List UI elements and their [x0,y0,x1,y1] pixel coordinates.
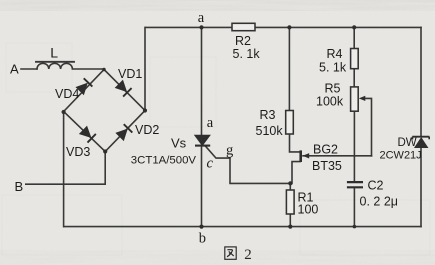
svg-text:DW: DW [398,137,417,149]
svg-text:R4: R4 [327,47,343,61]
diode VD1 [115,80,132,97]
svg-text:2: 2 [244,247,252,263]
svg-text:VD4: VD4 [55,87,79,101]
node R1 bottom junction [288,225,292,229]
node b junction [199,225,203,229]
node bridge bottom vertex [103,149,107,153]
node bridge left vertex [62,110,66,114]
caption 图 2 [225,247,236,259]
node a junction [199,25,203,29]
svg-text:VD2: VD2 [135,123,159,137]
resistor R5 [351,87,359,111]
wire bridge edge top-left [64,70,104,112]
svg-text:3CT1A/500V: 3CT1A/500V [131,155,197,167]
svg-text:VD1: VD1 [118,67,142,81]
wire left vertex drop [63,112,65,227]
wire UJT emitter [303,155,372,157]
wire R4 branch top [353,27,355,48]
wire B lead [26,183,105,185]
svg-text:L: L [50,45,58,61]
wire R5 to C2 [353,111,355,181]
wire bridge edge bottom-right [105,111,145,152]
node dots [62,25,357,228]
svg-text:100k: 100k [316,95,344,109]
wire C2 bottom lead [353,188,355,227]
svg-text:R2: R2 [235,34,251,48]
wire L to bridge top [74,68,104,70]
svg-text:g: g [226,143,233,159]
node C2 bottom junction [353,225,357,229]
wire UJT b1 [292,162,300,184]
svg-text:a: a [198,10,205,26]
svg-text:100: 100 [298,203,319,217]
inductor L [36,62,74,69]
svg-text:510k: 510k [256,124,284,138]
node bridge top vertex [102,68,105,71]
wire A lead [21,68,37,70]
svg-text:BT35: BT35 [312,159,342,173]
svg-text:b: b [199,231,206,247]
wire R1 bottom lead [289,214,291,227]
wire right vertex up [144,27,146,110]
diode VD3 [79,126,96,143]
wire thyristor cathode down [201,145,203,226]
wire R3 to UJT b2 [290,134,300,152]
thyristor Vs [195,135,210,145]
node R4 top junction [352,25,356,29]
wire R3 branch top [288,27,290,110]
capacitor C2 [347,182,363,187]
R5 tap arrow [359,96,366,101]
svg-text:C2: C2 [368,179,384,193]
node bridge right vertex [143,108,147,112]
wire gate path [206,146,291,183]
diode VD2 [116,124,133,141]
resistor R3 [286,111,294,135]
wire R4 to R5 [353,69,355,87]
svg-text:R3: R3 [260,108,276,122]
resistor R4 [351,49,359,69]
wire bridge edge top-right [104,70,145,111]
resistor R1 [286,190,294,214]
transistor BG2 bar [299,150,302,162]
svg-text:0. 2 2μ: 0. 2 2μ [360,195,398,209]
wire bottom rail [64,226,421,228]
svg-text:Vs: Vs [171,136,187,151]
node R3 top junction [287,25,291,29]
wire bottom vertex down [104,152,106,185]
wire R1 top lead [289,183,291,190]
svg-text:A: A [10,62,19,77]
zener diode DW [412,137,429,148]
svg-text:5. 1k: 5. 1k [319,61,347,75]
wire right branch upper [420,27,422,136]
node gate/R1 junction [288,181,292,185]
diode VD4 [76,78,93,95]
resistor R2 [232,23,255,30]
transistor BG2 emitter arrow [303,153,310,158]
wire R5 tap hook [364,98,372,155]
wire right branch lower [420,148,422,227]
wire top rail [146,26,421,28]
wire bridge edge bottom-left [64,112,106,152]
svg-text:R5: R5 [325,82,341,96]
svg-text:5. 1k: 5. 1k [233,47,261,61]
svg-text:B: B [15,179,24,194]
svg-text:BG2: BG2 [313,143,338,157]
wire thyristor anode [201,27,203,136]
svg-text:VD3: VD3 [66,145,90,159]
svg-text:c: c [207,156,214,172]
svg-text:a: a [207,115,214,131]
paper texture faint [2,43,430,255]
svg-text:2CW21J: 2CW21J [380,150,422,162]
